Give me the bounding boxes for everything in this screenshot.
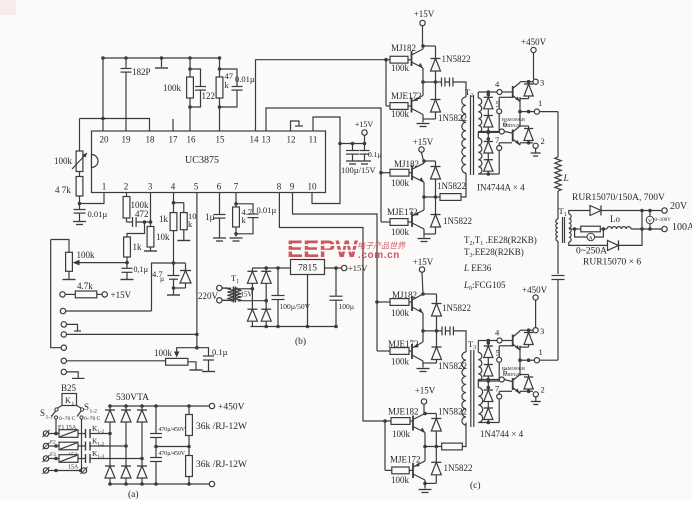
label 5 lower	[496, 348, 500, 358]
wire left rail down	[51, 240, 61, 348]
svg-text:0.01µ: 0.01µ	[88, 209, 108, 219]
terminal +15V vc	[362, 130, 367, 144]
label S1-1	[40, 408, 53, 421]
svg-text:Lo: Lo	[610, 214, 620, 224]
diode igbt Q10	[520, 126, 533, 143]
label +450V a	[218, 403, 245, 413]
logo EEPW watermark	[287, 236, 406, 263]
svg-text:10k: 10k	[156, 232, 170, 242]
svg-text:9: 9	[290, 182, 295, 192]
svg-text:20V: 20V	[670, 201, 688, 212]
svg-text:3: 3	[540, 326, 544, 336]
label 100k pot-left	[54, 156, 73, 166]
label MJE172 B	[387, 207, 418, 217]
label 100k Q7	[392, 429, 411, 439]
svg-text:14: 14	[250, 135, 260, 145]
svg-text:(c): (c)	[470, 480, 481, 491]
transformer T1 secondary	[569, 214, 571, 242]
svg-text:470µ/450V: 470µ/450V	[159, 451, 186, 457]
label 100u/15V	[341, 165, 377, 175]
svg-text:15A: 15A	[68, 465, 79, 471]
label 100u/50V	[280, 302, 311, 311]
wire L to T1	[557, 191, 559, 219]
label IN4744A x4	[477, 183, 525, 193]
wire pin11-pin10 loop	[312, 117, 342, 204]
terminal 5 riser	[497, 97, 512, 132]
svg-text:5: 5	[496, 348, 500, 358]
svg-text:1N5822: 1N5822	[437, 181, 466, 191]
svg-text:F2: F2	[50, 440, 56, 446]
label 182P	[132, 67, 151, 77]
svg-text:+15V: +15V	[348, 263, 368, 273]
wire b top rail	[252, 266, 290, 270]
svg-text:+450V: +450V	[218, 403, 245, 413]
svg-text:MJE182: MJE182	[388, 407, 419, 417]
label +450V lower	[522, 285, 548, 295]
label 20V	[670, 201, 688, 212]
voltmeter V	[646, 211, 654, 230]
label 7	[495, 135, 499, 145]
svg-text:+15V: +15V	[414, 9, 435, 19]
terminal 6 lower	[499, 377, 504, 382]
label +15V b-out	[348, 263, 368, 273]
transformer T4 left coil	[222, 288, 235, 301]
diode igbt Q9	[520, 82, 533, 99]
svg-text:RUR15070/150A, 700V: RUR15070/150A, 700V	[572, 193, 665, 203]
svg-text:1µ: 1µ	[205, 212, 215, 222]
svg-text:+450V: +450V	[522, 285, 548, 295]
potentiometer 100k left	[72, 151, 87, 172]
svg-text:0~250A: 0~250A	[576, 247, 607, 257]
svg-text:1N5822: 1N5822	[444, 463, 473, 473]
svg-text:20: 20	[100, 135, 110, 145]
ground pin7	[230, 238, 243, 241]
diode 1N5822 A1	[423, 46, 441, 84]
wire T4 to bridge bottom	[239, 299, 268, 303]
capacitor 182P	[121, 56, 132, 131]
wire midpoint rail 1L	[520, 346, 558, 362]
transistor Q7 MJE182	[413, 412, 427, 447]
capacitor 472	[127, 217, 153, 227]
svg-text:1N5822: 1N5822	[442, 303, 471, 313]
svg-text:100k: 100k	[77, 250, 96, 260]
label 0~250A	[576, 247, 607, 257]
wire phase2 to arm2	[110, 445, 126, 447]
transistor Q1 MJ182	[412, 44, 425, 82]
svg-text:13: 13	[262, 135, 272, 145]
label 4.7k left	[55, 185, 71, 195]
ground 4.7u soft	[167, 288, 180, 295]
fuse F1	[56, 430, 78, 438]
svg-text:470µ/450V: 470µ/450V	[159, 427, 186, 433]
label T2	[465, 87, 473, 99]
igbt Q10 lower	[513, 110, 522, 145]
label 1N5822 D1	[438, 407, 467, 417]
wire pin9 route	[293, 193, 379, 352]
svg-text:36k /RJ-12W: 36k /RJ-12W	[196, 460, 247, 470]
svg-text:0~70 C: 0~70 C	[59, 416, 76, 422]
svg-text:100k: 100k	[391, 357, 410, 367]
label 100k Q3	[391, 178, 410, 188]
label T3	[468, 339, 476, 351]
wire conn2 riser	[152, 261, 186, 311]
bridge b right arm	[261, 268, 271, 327]
diode 1N5822 D2	[425, 447, 441, 484]
label 1N5822 D2	[444, 463, 473, 473]
terminal N end	[81, 467, 88, 474]
svg-text:100k: 100k	[391, 475, 410, 485]
transformer T1 primary	[556, 219, 558, 241]
ground terminal 2 upper	[531, 148, 541, 156]
wire gate4 line	[478, 90, 512, 98]
terminal conn6	[61, 358, 166, 363]
label 7 lower	[495, 384, 499, 394]
svg-text:MJ182: MJ182	[394, 159, 419, 169]
terminal 220V top	[217, 285, 228, 290]
switch S1-1	[52, 406, 63, 436]
capacitor 0.1u vc	[360, 144, 370, 161]
label 36k bottom	[196, 460, 247, 470]
wire cap-res midpoint	[156, 446, 189, 448]
label 6	[503, 119, 507, 129]
inductor Lo	[603, 227, 661, 231]
terminal 4 lower	[497, 338, 502, 343]
svg-text:12: 12	[287, 135, 296, 145]
label 0-70C s1	[59, 416, 76, 422]
label 530VTA	[116, 393, 149, 403]
label MJE172 A	[391, 91, 422, 101]
bridge 530VTA arm2	[121, 404, 131, 486]
wire y118 to pin18	[80, 119, 150, 132]
svg-text:7: 7	[234, 182, 239, 192]
svg-text:MJ182: MJ182	[391, 43, 416, 53]
transformer T1 core	[563, 217, 565, 243]
resistor 100k Q2 base	[390, 103, 412, 110]
phase terminal F2	[43, 443, 58, 450]
wire coil bottom rail B	[478, 173, 499, 175]
svg-text:100k: 100k	[154, 348, 173, 358]
label 100k ref	[77, 250, 96, 260]
label 100k Q6	[391, 357, 410, 367]
transistor Q8 MJE172	[413, 445, 427, 489]
svg-text:0~70 C: 0~70 C	[84, 416, 101, 422]
svg-text:182P: 182P	[132, 67, 151, 77]
svg-text:19: 19	[122, 135, 132, 145]
resistor 100k pin2	[123, 193, 130, 223]
wire cap to bridge2	[557, 280, 559, 361]
terminal conn7	[61, 369, 84, 378]
label 0.1u ref	[134, 265, 149, 274]
svg-text:V: V	[648, 219, 652, 225]
resistor 100k Q4 base	[381, 219, 412, 226]
wire top rail y58	[103, 57, 220, 59]
svg-text:6: 6	[503, 367, 507, 377]
transformer T3 secondary upper	[478, 353, 482, 382]
label S1-2	[84, 402, 97, 415]
svg-text:16: 16	[187, 135, 197, 145]
diode igbt Q11	[520, 330, 533, 347]
label +15V stage A	[414, 9, 435, 19]
label 1 lower	[539, 347, 543, 357]
svg-text:(b): (b)	[295, 336, 306, 347]
resistor 36k top	[186, 406, 193, 447]
wire pin3	[150, 193, 152, 227]
label 0-70C s2	[84, 416, 101, 422]
wiper arrow ref	[73, 260, 129, 266]
svg-text:100k: 100k	[392, 429, 411, 439]
fuse F2	[56, 442, 78, 450]
svg-text:3: 3	[473, 345, 476, 351]
label T4	[231, 273, 239, 285]
svg-text:S: S	[40, 408, 45, 418]
transformer T2 secondary lower	[478, 138, 482, 174]
relay coil K1	[62, 394, 77, 408]
capacitor 0.1u ref	[122, 263, 133, 279]
svg-text:122: 122	[202, 91, 216, 101]
label 470u bottom	[159, 451, 186, 457]
svg-text:电子产品世界: 电子产品世界	[357, 242, 406, 251]
label 4.7k conn	[77, 281, 93, 291]
terminal +450V upper	[531, 47, 536, 79]
wire pin17 stub	[172, 119, 174, 131]
zener stack A	[484, 92, 493, 134]
label 0.1u vc	[368, 150, 382, 159]
label T2T1 EE28	[464, 235, 537, 247]
terminal 3 upper	[533, 79, 538, 84]
label 1N5822 B2	[443, 216, 472, 226]
label 0-100V	[655, 218, 672, 223]
capacitor 0.01u left	[74, 210, 86, 222]
svg-text:7: 7	[495, 135, 499, 145]
potentiometer 100k ref	[66, 252, 73, 271]
terminal a minus	[209, 481, 214, 486]
label 3 upper	[540, 78, 544, 88]
wire collector rail 3L	[520, 328, 533, 332]
label 100k osc	[163, 83, 182, 93]
wire 7815 out	[325, 266, 342, 270]
wire emitter rail 2	[520, 141, 533, 145]
capacitor dc-block	[552, 276, 565, 280]
svg-text:15: 15	[216, 135, 226, 145]
resistor 1k pin4	[170, 213, 177, 263]
svg-text:4: 4	[171, 182, 176, 192]
phase terminal F1	[43, 430, 58, 437]
resistor 1k feedback	[124, 222, 145, 263]
resistor 100k Q3 base	[381, 169, 412, 176]
svg-text:1: 1	[72, 401, 75, 407]
terminal +15V stage D	[421, 399, 426, 414]
wire center tap rail	[569, 227, 577, 231]
label +15V conn	[111, 290, 132, 300]
zener stack D	[484, 380, 493, 425]
wire gate6L line	[478, 378, 512, 388]
zener stack B	[484, 132, 493, 176]
resistor 47k	[216, 77, 223, 98]
svg-text:0.01µ: 0.01µ	[235, 74, 255, 84]
resistor 100k Q7 base	[385, 418, 413, 425]
ground 0.01u left	[73, 222, 86, 225]
resistor 100k Q1 base	[386, 56, 412, 63]
ground Q8 collector	[419, 490, 432, 493]
ground Q6 collector	[417, 369, 430, 372]
resistor 100k Q5 base	[377, 299, 412, 306]
diode RUR top	[590, 206, 601, 216]
label F1 15A	[58, 425, 77, 431]
diode RUR bottom	[608, 240, 619, 250]
label F3	[50, 452, 56, 458]
label 15V	[241, 291, 253, 299]
label 1N5822 A1	[442, 54, 471, 64]
svg-text:3: 3	[540, 78, 544, 88]
wire secondary top rail	[569, 211, 590, 215]
label 100k Q5	[391, 308, 410, 318]
wire b bottom rail	[251, 325, 338, 329]
capacitor 100u/15V	[346, 144, 359, 161]
svg-text:B25: B25	[61, 383, 77, 393]
svg-text:RUR15070 × 6: RUR15070 × 6	[583, 258, 641, 268]
svg-text:1: 1	[102, 182, 107, 192]
label 220V	[198, 291, 219, 301]
svg-text:7815: 7815	[298, 264, 317, 274]
ammeter A	[575, 229, 604, 242]
wire pin8 route	[279, 193, 386, 471]
svg-text:6: 6	[217, 182, 222, 192]
ground soft pot	[188, 362, 203, 370]
wire pin13 route	[266, 108, 383, 222]
phase terminal N	[43, 467, 83, 474]
label 100u out-b	[339, 302, 355, 311]
capacitor 0.01u pin15	[220, 69, 243, 107]
label 1N5822 A2	[438, 113, 467, 123]
svg-text:10: 10	[308, 182, 318, 192]
svg-text:8: 8	[277, 182, 282, 192]
label 4	[495, 79, 500, 89]
svg-text:15V: 15V	[241, 291, 253, 299]
transformer T4 right coil	[234, 288, 252, 301]
svg-text:F3: F3	[50, 452, 56, 458]
label BSM100GB	[502, 117, 525, 128]
capacitor 100u out-b	[330, 268, 343, 327]
svg-text:S: S	[84, 402, 89, 412]
wire coil bottom rail D	[478, 422, 499, 424]
svg-text:MJE172: MJE172	[390, 455, 421, 465]
label (c)	[470, 480, 481, 491]
svg-text:17: 17	[169, 135, 179, 145]
scan tint top-left	[0, 0, 16, 15]
capacitor 0.01u pin7	[236, 204, 259, 234]
transistor Q3 MJ182	[412, 159, 426, 197]
label MJE182 D	[388, 407, 419, 417]
svg-text:+15V: +15V	[355, 120, 374, 129]
svg-text:1-1: 1-1	[46, 415, 54, 421]
wire left rail x79	[79, 119, 81, 152]
svg-text:1: 1	[564, 212, 567, 218]
label (b)	[295, 336, 306, 347]
diode 1N5822 C1	[423, 294, 442, 333]
wire pin19 crossing	[0, 0, 1, 1]
label 100k Q8	[391, 475, 410, 485]
terminal 2 lower	[533, 392, 538, 397]
capacitor 470u bottom	[150, 445, 162, 484]
terminal 4	[497, 90, 502, 95]
label MJ182 A	[391, 43, 416, 53]
svg-text:2: 2	[541, 385, 545, 395]
terminal 5 lower riser	[497, 346, 512, 381]
transformer T2 primary	[462, 97, 466, 173]
label 6 lower	[503, 367, 507, 377]
svg-text:2: 2	[541, 136, 545, 146]
svg-text:+15V: +15V	[415, 386, 436, 396]
wire pin4 node	[172, 193, 184, 213]
svg-text:1-3: 1-3	[98, 455, 105, 460]
label RUR15070/150A	[572, 193, 665, 203]
svg-text:.com.cn: .com.cn	[358, 250, 400, 261]
svg-text:4 7k: 4 7k	[55, 185, 71, 195]
terminal 2 upper	[533, 143, 538, 148]
terminal +15V stage A	[420, 20, 425, 46]
svg-text:11: 11	[309, 135, 318, 145]
wire midpoint rail 1	[520, 97, 558, 113]
svg-text:530VTA: 530VTA	[116, 393, 149, 403]
capacitor 4.7u soft	[168, 263, 180, 290]
bridge 530VTA arm3	[137, 404, 147, 486]
svg-text:1-2: 1-2	[90, 409, 98, 415]
svg-text:100k: 100k	[54, 156, 73, 166]
terminal 7 lower riser	[497, 391, 512, 422]
relay contact K1-2b	[78, 437, 110, 451]
svg-text:18: 18	[146, 135, 156, 145]
terminal conn2	[60, 308, 151, 313]
terminal 3 lower	[533, 328, 538, 333]
transformer T3 secondary lower	[478, 388, 482, 423]
diode igbt Q12	[520, 375, 533, 392]
terminal +15V stage B	[419, 147, 424, 161]
ground Q4 collector	[418, 239, 431, 242]
ground 100u/15V	[346, 161, 359, 164]
ground terminal 2 lower	[531, 397, 541, 405]
ground stub at 161	[155, 56, 168, 68]
label MJ182 B	[394, 159, 419, 169]
svg-text:1: 1	[539, 347, 543, 357]
phase terminal F3	[43, 455, 58, 462]
svg-text:UC3875: UC3875	[185, 155, 219, 166]
label +15V stage D	[415, 386, 436, 396]
wire phase3 to arm3	[110, 458, 142, 460]
diode 1N5822 A2	[423, 82, 441, 119]
resistor 4.7k pin7	[233, 193, 240, 237]
resistor shunt	[575, 226, 606, 232]
ground 10k pin4	[177, 240, 190, 242]
label MJ182 C	[392, 290, 417, 300]
wire +15V rail	[340, 142, 366, 146]
svg-text:100µ: 100µ	[339, 302, 355, 311]
label 1N5822 B1	[437, 181, 466, 191]
svg-text:7: 7	[495, 384, 499, 394]
terminal conn4	[61, 332, 197, 337]
svg-text:+450V: +450V	[521, 37, 547, 47]
svg-text:5: 5	[496, 99, 500, 109]
resistor 4.7k conn	[60, 291, 102, 298]
switch S1-2	[77, 406, 84, 473]
svg-text:0~100V: 0~100V	[655, 218, 672, 223]
svg-text:100k: 100k	[391, 308, 410, 318]
label +15V vc	[355, 120, 374, 129]
diode soft	[174, 263, 192, 288]
terminal conn3	[61, 322, 81, 331]
wire bridge mid to L	[557, 112, 559, 157]
transistor Q6 MJE172	[412, 329, 425, 367]
svg-text:+15V: +15V	[413, 257, 434, 267]
